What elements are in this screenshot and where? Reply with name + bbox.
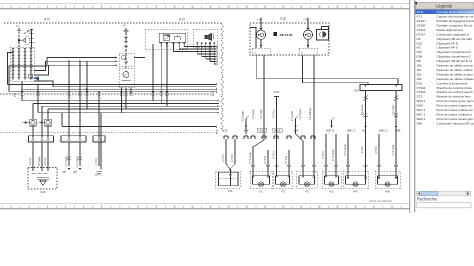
svg-text:N8: N8 bbox=[417, 59, 421, 63]
bundle arrowheads bbox=[217, 100, 219, 102]
lamp N3 bbox=[250, 171, 272, 189]
arrowheads into A8 bbox=[115, 57, 117, 59]
svg-text:Faisceau de câbles châssis: Faisceau de câbles châssis bbox=[437, 77, 474, 81]
svg-text:A73e7: A73e7 bbox=[417, 32, 426, 36]
flasher glyph bbox=[163, 35, 170, 40]
lamp N2 bbox=[297, 171, 318, 189]
svg-text:0,5 sw: 0,5 sw bbox=[43, 158, 47, 166]
svg-text:1,5 swws: 1,5 swws bbox=[291, 110, 294, 121]
svg-text:0,75 br: 0,75 br bbox=[230, 154, 234, 162]
corner joins to boundary bbox=[197, 54, 216, 64]
svg-text:Faisceau de câbles pont ar: Faisceau de câbles pont ar bbox=[437, 64, 474, 68]
wire x87 drop bbox=[86, 61, 88, 109]
svg-text:H5: H5 bbox=[305, 189, 309, 193]
svg-text:Point de masse (vague arr: Point de masse (vague arr bbox=[437, 104, 473, 108]
relay pin wires down bbox=[152, 44, 154, 101]
svg-text:13: 13 bbox=[227, 4, 231, 8]
ground W67.2 bbox=[97, 171, 102, 173]
svg-text:18: 18 bbox=[318, 4, 322, 8]
svg-text:Centrale électronique ant br: Centrale électronique ant br bbox=[437, 10, 474, 14]
relay A73b1 dashed box bbox=[145, 29, 187, 50]
svg-text:0,75 br: 0,75 br bbox=[272, 151, 276, 159]
svg-text:S30: S30 bbox=[417, 121, 423, 125]
svg-text:1,0 swws: 1,0 swws bbox=[298, 108, 302, 119]
wiring diagram bbox=[0, 17, 402, 203]
connector row box 3 bbox=[93, 136, 105, 142]
wire 1,0 swws bbox=[79, 143, 81, 167]
small connector rect bbox=[29, 74, 33, 78]
svg-text:X73b4: X73b4 bbox=[417, 86, 426, 90]
svg-text:-/+8: -/+8 bbox=[303, 17, 308, 21]
X50 wire down 2 bbox=[395, 91, 397, 172]
P15 bottom connectors bbox=[252, 48, 270, 55]
svg-text:X73b5: X73b5 bbox=[417, 90, 426, 94]
svg-text:0,75 bl: 0,75 bl bbox=[263, 156, 267, 164]
svg-text:W23.1: W23.1 bbox=[417, 99, 426, 103]
svg-text:N2: N2 bbox=[417, 37, 421, 41]
svg-text:Planche de contrôle gauch: Planche de contrôle gauch bbox=[437, 90, 473, 94]
X50 wire down 1 bbox=[365, 91, 367, 172]
blue position marker bbox=[34, 77, 39, 81]
svg-text:0,75 swws: 0,75 swws bbox=[343, 143, 347, 156]
svg-text:N37: N37 bbox=[417, 50, 423, 54]
trailer socket X58 dashed box bbox=[28, 168, 57, 190]
svg-text:Planche de contrôle droite: Planche de contrôle droite bbox=[437, 86, 473, 90]
svg-text:2: 2 bbox=[338, 173, 339, 175]
svg-text:H48: H48 bbox=[385, 189, 390, 193]
connector marks on harness line bbox=[21, 92, 169, 95]
svg-text:20: 20 bbox=[354, 4, 358, 8]
svg-text:2: 2 bbox=[316, 173, 317, 175]
legend horizontal scrollbar bbox=[417, 191, 471, 196]
svg-text:0,5 swbl gn: 0,5 swbl gn bbox=[309, 107, 312, 120]
connector row box 2 bbox=[61, 136, 86, 142]
svg-text:0,75 br: 0,75 br bbox=[221, 154, 225, 162]
svg-text:A7300: A7300 bbox=[417, 23, 426, 27]
fuse F2 bbox=[47, 109, 49, 119]
dashed region boundary A73 bbox=[4, 22, 221, 24]
svg-text:J88: J88 bbox=[62, 171, 67, 174]
wire 1,0 swge bbox=[68, 143, 70, 167]
svg-text:N3: N3 bbox=[417, 46, 421, 50]
wire 1,5 br bbox=[98, 143, 100, 167]
wire drops to connector row bbox=[41, 106, 43, 136]
svg-text:J91: J91 bbox=[417, 68, 422, 72]
pin strip x31 bbox=[30, 48, 32, 80]
svg-text:22: 22 bbox=[390, 4, 394, 8]
svg-text:P15: P15 bbox=[417, 81, 423, 85]
svg-text:15: 15 bbox=[263, 204, 267, 208]
svg-text:12: 12 bbox=[209, 4, 213, 8]
wire from P15 pin 3 bbox=[302, 55, 368, 85]
svg-text:19: 19 bbox=[336, 4, 340, 8]
wire x69 drop bbox=[68, 61, 70, 136]
svg-text:A73: A73 bbox=[44, 18, 50, 22]
wire x80 drop bbox=[79, 61, 81, 136]
indicator lamp right bbox=[307, 18, 309, 30]
wire break marks bbox=[363, 96, 367, 101]
valve symbol bbox=[20, 38, 25, 42]
svg-text:13: 13 bbox=[227, 204, 231, 208]
svg-text:Faisceau de câbles moteur: Faisceau de câbles moteur bbox=[437, 72, 474, 76]
wire 1,5 sw bbox=[32, 143, 34, 167]
svg-text:N38: N38 bbox=[417, 55, 423, 59]
svg-text:0,5 swbl: 0,5 swbl bbox=[259, 109, 263, 119]
svg-text:Clignotant complément D: Clignotant complément D bbox=[437, 50, 472, 54]
bundle end hooks bbox=[216, 83, 217, 128]
svg-text:17: 17 bbox=[300, 4, 304, 8]
svg-text:H3: H3 bbox=[281, 189, 285, 193]
wire staircase upper bbox=[34, 61, 117, 70]
svg-text:22: 22 bbox=[390, 204, 394, 208]
wire into A8 line y57 bbox=[9, 58, 216, 92]
svg-text:2: 2 bbox=[270, 173, 271, 175]
svg-text:J90: J90 bbox=[417, 64, 422, 68]
svg-text:W19: W19 bbox=[274, 90, 280, 94]
fuse F1 bbox=[32, 104, 34, 120]
svg-text:P15: P15 bbox=[280, 17, 286, 21]
svg-text:0,75 br: 0,75 br bbox=[321, 151, 325, 159]
svg-text:W26: W26 bbox=[417, 104, 424, 108]
svg-text:Point de masse (cabine arr: Point de masse (cabine arr bbox=[437, 108, 473, 112]
svg-text:W37.2: W37.2 bbox=[326, 129, 335, 133]
svg-text:W37.2: W37.2 bbox=[417, 108, 426, 112]
contact strip bbox=[31, 30, 33, 48]
svg-text:Clignotant AP G: Clignotant AP G bbox=[437, 46, 459, 50]
arrowheads on through wires bbox=[364, 126, 366, 129]
svg-text:2: 2 bbox=[368, 173, 369, 175]
svg-text:Légende: Légende bbox=[436, 4, 453, 9]
search input bbox=[417, 203, 471, 208]
svg-text:1: 1 bbox=[250, 173, 251, 175]
indicator lamp left bbox=[260, 18, 262, 30]
svg-text:0,75 bl: 0,75 bl bbox=[284, 156, 288, 164]
svg-text:H47: H47 bbox=[353, 189, 358, 193]
splice arcs on X50 drops bbox=[364, 113, 399, 117]
svg-text:1,5 sw: 1,5 sw bbox=[28, 158, 32, 166]
svg-text:2: 2 bbox=[291, 173, 292, 175]
svg-text:W1B: W1B bbox=[274, 129, 280, 133]
pin strip x19 bbox=[18, 48, 20, 80]
A8 dashed box 1 bbox=[119, 53, 134, 67]
wire W7B->lamp C bbox=[276, 136, 278, 171]
panel splitter bbox=[414, 0, 416, 212]
svg-text:A73b1: A73b1 bbox=[417, 28, 426, 32]
wire bus outer loop bbox=[8, 53, 217, 85]
svg-text:A8: A8 bbox=[122, 23, 126, 27]
wire y81 to y86.8 bbox=[34, 81, 216, 87]
svg-text:X50: X50 bbox=[354, 89, 359, 93]
svg-text:S73: S73 bbox=[417, 95, 423, 99]
svg-text:H31: H31 bbox=[329, 189, 334, 193]
connector box S30 (no lamp) bbox=[216, 171, 241, 189]
svg-text:H2: H2 bbox=[259, 189, 263, 193]
junction dots left bus bbox=[86, 88, 88, 90]
svg-text:Portable tachygraphe Kienz: Portable tachygraphe Kienz bbox=[437, 19, 474, 23]
svg-text:21: 21 bbox=[372, 4, 376, 8]
svg-text:Clignotant 3M avt (av cab): Clignotant 3M avt (av cab) bbox=[437, 37, 473, 41]
svg-text:15S: 15S bbox=[228, 189, 233, 193]
top ruler bbox=[0, 4, 410, 9]
svg-text:0,75 swge: 0,75 swge bbox=[248, 152, 252, 164]
contact glyph bbox=[174, 35, 180, 40]
svg-text:0,75 swgr: 0,75 swgr bbox=[391, 144, 395, 155]
svg-text:A73: A73 bbox=[179, 18, 185, 22]
svg-text:10: 10 bbox=[173, 204, 177, 208]
svg-text:A371: A371 bbox=[417, 10, 424, 14]
svg-text:17: 17 bbox=[300, 204, 304, 208]
svg-text:W67.2: W67.2 bbox=[95, 173, 103, 176]
svg-text:Faisceau de câbles cabine: Faisceau de câbles cabine bbox=[437, 68, 473, 72]
wire 0,5 sw bbox=[47, 143, 49, 167]
wire J88->lamp B bbox=[253, 136, 264, 171]
wire from P15 pin 2 bbox=[263, 55, 265, 136]
bottom ruler bbox=[0, 204, 410, 209]
PE logo text bbox=[274, 32, 278, 36]
svg-text:J94: J94 bbox=[417, 77, 422, 81]
svg-text:Connecteur faisceau AR ca: Connecteur faisceau AR ca bbox=[437, 121, 474, 125]
lower wire bundle bbox=[22, 101, 219, 169]
svg-text:J88: J88 bbox=[396, 129, 401, 133]
lamp N37 bbox=[343, 171, 368, 189]
svg-text:J93: J93 bbox=[417, 72, 422, 76]
connector row box 1 bbox=[29, 136, 54, 142]
svg-text:2: 2 bbox=[398, 173, 399, 175]
svg-text:1,0 gnge: 1,0 gnge bbox=[37, 156, 41, 167]
svg-text:20: 20 bbox=[354, 204, 358, 208]
wire x99 drop bbox=[98, 91, 100, 136]
svg-text:10: 10 bbox=[173, 4, 177, 8]
svg-text:1,5 swgr: 1,5 swgr bbox=[391, 105, 395, 115]
svg-text:Portable contacteur Din av: Portable contacteur Din av bbox=[437, 23, 473, 27]
wire from P15 pin 1 bbox=[257, 55, 398, 85]
svg-text:18: 18 bbox=[318, 204, 322, 208]
svg-text:1,5 swge: 1,5 swge bbox=[242, 110, 245, 120]
svg-text:Capteur électronique ar vol: Capteur électronique ar vol bbox=[437, 15, 474, 19]
svg-text:A71: A71 bbox=[417, 15, 423, 19]
svg-text:J81: J81 bbox=[362, 129, 367, 133]
svg-text:W18: W18 bbox=[259, 129, 265, 133]
svg-text:Recherche: Recherche bbox=[417, 197, 438, 202]
connector row marks under junction labels bbox=[224, 136, 228, 139]
lamp N8 bbox=[322, 171, 341, 189]
connector A8 dashed box 2 bbox=[119, 68, 134, 88]
wire x38 drop bbox=[37, 85, 39, 113]
wire 1,0 gnge bbox=[41, 143, 43, 167]
svg-text:W69.1: W69.1 bbox=[417, 117, 426, 121]
pin strip x13 bbox=[12, 48, 14, 80]
svg-text:0,75 br: 0,75 br bbox=[272, 110, 276, 118]
stub above W37.2 bbox=[332, 117, 335, 127]
svg-text:A73/17: A73/17 bbox=[417, 19, 427, 23]
svg-text:W26.1: W26.1 bbox=[379, 129, 388, 133]
junction lead arrows bbox=[246, 116, 249, 135]
control unit A371 (dashed box with pin strips) bbox=[11, 47, 35, 81]
relay inner block bbox=[159, 33, 186, 43]
wires W19 pair bbox=[225, 139, 227, 164]
svg-text:J88: J88 bbox=[73, 171, 78, 174]
buzzer A73e7 dashed box bbox=[193, 29, 218, 47]
wire from P15 pin 4 bbox=[313, 55, 315, 136]
svg-text:1,0 swge: 1,0 swge bbox=[251, 108, 255, 119]
svg-text:PE 91.30-2290-06a: PE 91.30-2290-06a bbox=[370, 199, 393, 203]
svg-text:Point de masse (avant gau: Point de masse (avant gau bbox=[437, 117, 474, 121]
buzzer pins bbox=[196, 42, 198, 54]
svg-text:15: 15 bbox=[263, 4, 267, 8]
pin row bracket bbox=[14, 93, 17, 97]
svg-text:Relais clignotement: Relais clignotement bbox=[437, 28, 464, 32]
svg-text:Clignotant 3M AP avt D ca: Clignotant 3M AP avt D ca bbox=[437, 59, 473, 63]
svg-text:16: 16 bbox=[282, 4, 286, 8]
J88 terminal arrows bbox=[67, 157, 82, 161]
svg-text:12: 12 bbox=[209, 204, 213, 208]
svg-text:Point de masse (prise remo: Point de masse (prise remo bbox=[437, 99, 474, 103]
relay pin squares bbox=[160, 42, 162, 44]
svg-text:N12: N12 bbox=[417, 41, 423, 45]
buzzer horn symbol bbox=[205, 34, 212, 41]
instrument cluster P15 dashed box bbox=[250, 23, 329, 55]
diagram right border bbox=[409, 0, 411, 213]
svg-text:Combiné d'instruments: Combiné d'instruments bbox=[437, 81, 469, 85]
wires to lamp E bbox=[325, 134, 327, 171]
svg-text:PE 04.30: PE 04.30 bbox=[280, 33, 293, 37]
svg-text:Clignotant AP D: Clignotant AP D bbox=[437, 41, 459, 45]
svg-text:W19: W19 bbox=[222, 129, 228, 133]
wires from A8 box bbox=[121, 88, 123, 113]
svg-text:11: 11 bbox=[191, 4, 194, 8]
legend table bbox=[414, 2, 474, 125]
wire y89.1 bbox=[22, 81, 216, 101]
svg-text:0,75 br: 0,75 br bbox=[374, 146, 378, 154]
svg-text:14: 14 bbox=[245, 204, 249, 208]
svg-text:16: 16 bbox=[282, 204, 286, 208]
svg-text:1,5 br: 1,5 br bbox=[94, 158, 98, 165]
P15 internal corner wires bbox=[250, 28, 256, 49]
svg-text:0,75 swws: 0,75 swws bbox=[331, 148, 335, 161]
lamp N38 bbox=[375, 171, 400, 189]
pin strip x25 bbox=[24, 48, 26, 80]
svg-text:14: 14 bbox=[245, 4, 249, 8]
svg-text:Manette de direction feux: Manette de direction feux bbox=[437, 95, 472, 99]
lamp N12 bbox=[273, 171, 292, 189]
svg-text:1: 1 bbox=[376, 173, 377, 175]
splice arcs on feeds bbox=[251, 165, 398, 166]
boxed junction labels bbox=[257, 128, 266, 132]
cluster buzzer bbox=[317, 30, 329, 41]
svg-text:1: 1 bbox=[274, 173, 275, 175]
svg-text:21: 21 bbox=[372, 204, 376, 208]
connector X50 bbox=[360, 85, 402, 91]
svg-text:1,0 swws: 1,0 swws bbox=[360, 104, 364, 115]
drop to lamp F bbox=[347, 134, 349, 171]
svg-text:1: 1 bbox=[345, 173, 346, 175]
drop to lamp G bbox=[378, 134, 380, 171]
svg-text:Connecteur clignotant tr: Connecteur clignotant tr bbox=[437, 32, 469, 36]
svg-text:Point de masse (châssis a: Point de masse (châssis a bbox=[437, 112, 473, 116]
svg-text:1,0 br: 1,0 br bbox=[360, 147, 364, 154]
svg-text:W67.1: W67.1 bbox=[347, 129, 356, 133]
svg-text:1: 1 bbox=[323, 173, 324, 175]
svg-text:SAS: SAS bbox=[40, 190, 45, 194]
dashed harness boundary (cab/chassis) bbox=[0, 93, 212, 95]
svg-text:11: 11 bbox=[191, 204, 194, 208]
svg-text:W67.1: W67.1 bbox=[417, 112, 426, 116]
svg-text:19: 19 bbox=[336, 204, 340, 208]
svg-text:Clignotant complément G: Clignotant complément G bbox=[437, 55, 472, 59]
svg-text:1: 1 bbox=[300, 173, 301, 175]
